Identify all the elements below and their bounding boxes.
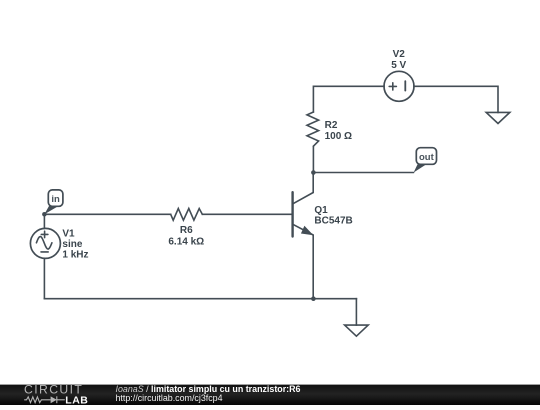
svg-text:sine: sine <box>62 239 82 250</box>
resistor R6 <box>171 209 203 221</box>
ground (top right) <box>486 112 510 123</box>
flag "in" <box>44 190 63 214</box>
node out (junction dot) <box>311 170 316 175</box>
resistor R2 <box>307 112 319 146</box>
svg-text:1 kHz: 1 kHz <box>62 250 88 261</box>
svg-text:V2: V2 <box>393 49 406 60</box>
svg-text:Q1: Q1 <box>314 205 328 216</box>
svg-text:out: out <box>419 152 435 163</box>
wire V1 bottom lead <box>43 258 45 298</box>
wire R2 bottom lead <box>312 146 314 172</box>
svg-text:100 Ω: 100 Ω <box>325 131 352 142</box>
svg-text:V1: V1 <box>62 228 75 239</box>
wire bottom-right ground lead <box>355 299 357 325</box>
svg-text:http://circuitlab.com/cj3fcp4: http://circuitlab.com/cj3fcp4 <box>116 393 223 403</box>
wire top-right rail <box>414 86 498 112</box>
node in (junction dot) <box>42 212 47 217</box>
wire base rail: in-node to transistor base <box>44 213 292 215</box>
svg-text:R2: R2 <box>325 120 338 131</box>
logo circuit glyph <box>24 396 65 403</box>
wire R2 top lead + top-left rail <box>313 86 384 112</box>
wire V1 top lead <box>43 214 45 228</box>
wire out <box>313 172 413 174</box>
node emitter-bottom (junction dot) <box>311 296 316 301</box>
svg-text:in: in <box>51 194 60 205</box>
svg-text:R6: R6 <box>180 225 193 236</box>
svg-text:BC547B: BC547B <box>314 215 352 226</box>
footer bar <box>0 383 540 407</box>
wire bottom rail <box>44 298 356 300</box>
flag "out" <box>414 148 437 173</box>
svg-text:5 V: 5 V <box>391 60 406 71</box>
wire emitter to bottom rail <box>312 235 314 299</box>
svg-text:6.14 kΩ: 6.14 kΩ <box>168 237 204 248</box>
svg-text:LAB: LAB <box>65 394 88 405</box>
ground (bottom) <box>345 325 369 336</box>
voltage source V2 <box>384 71 414 101</box>
transistor Q1 <box>293 192 314 236</box>
wire collector vertical (node to transistor) <box>312 173 314 193</box>
voltage source V1 <box>30 228 60 258</box>
